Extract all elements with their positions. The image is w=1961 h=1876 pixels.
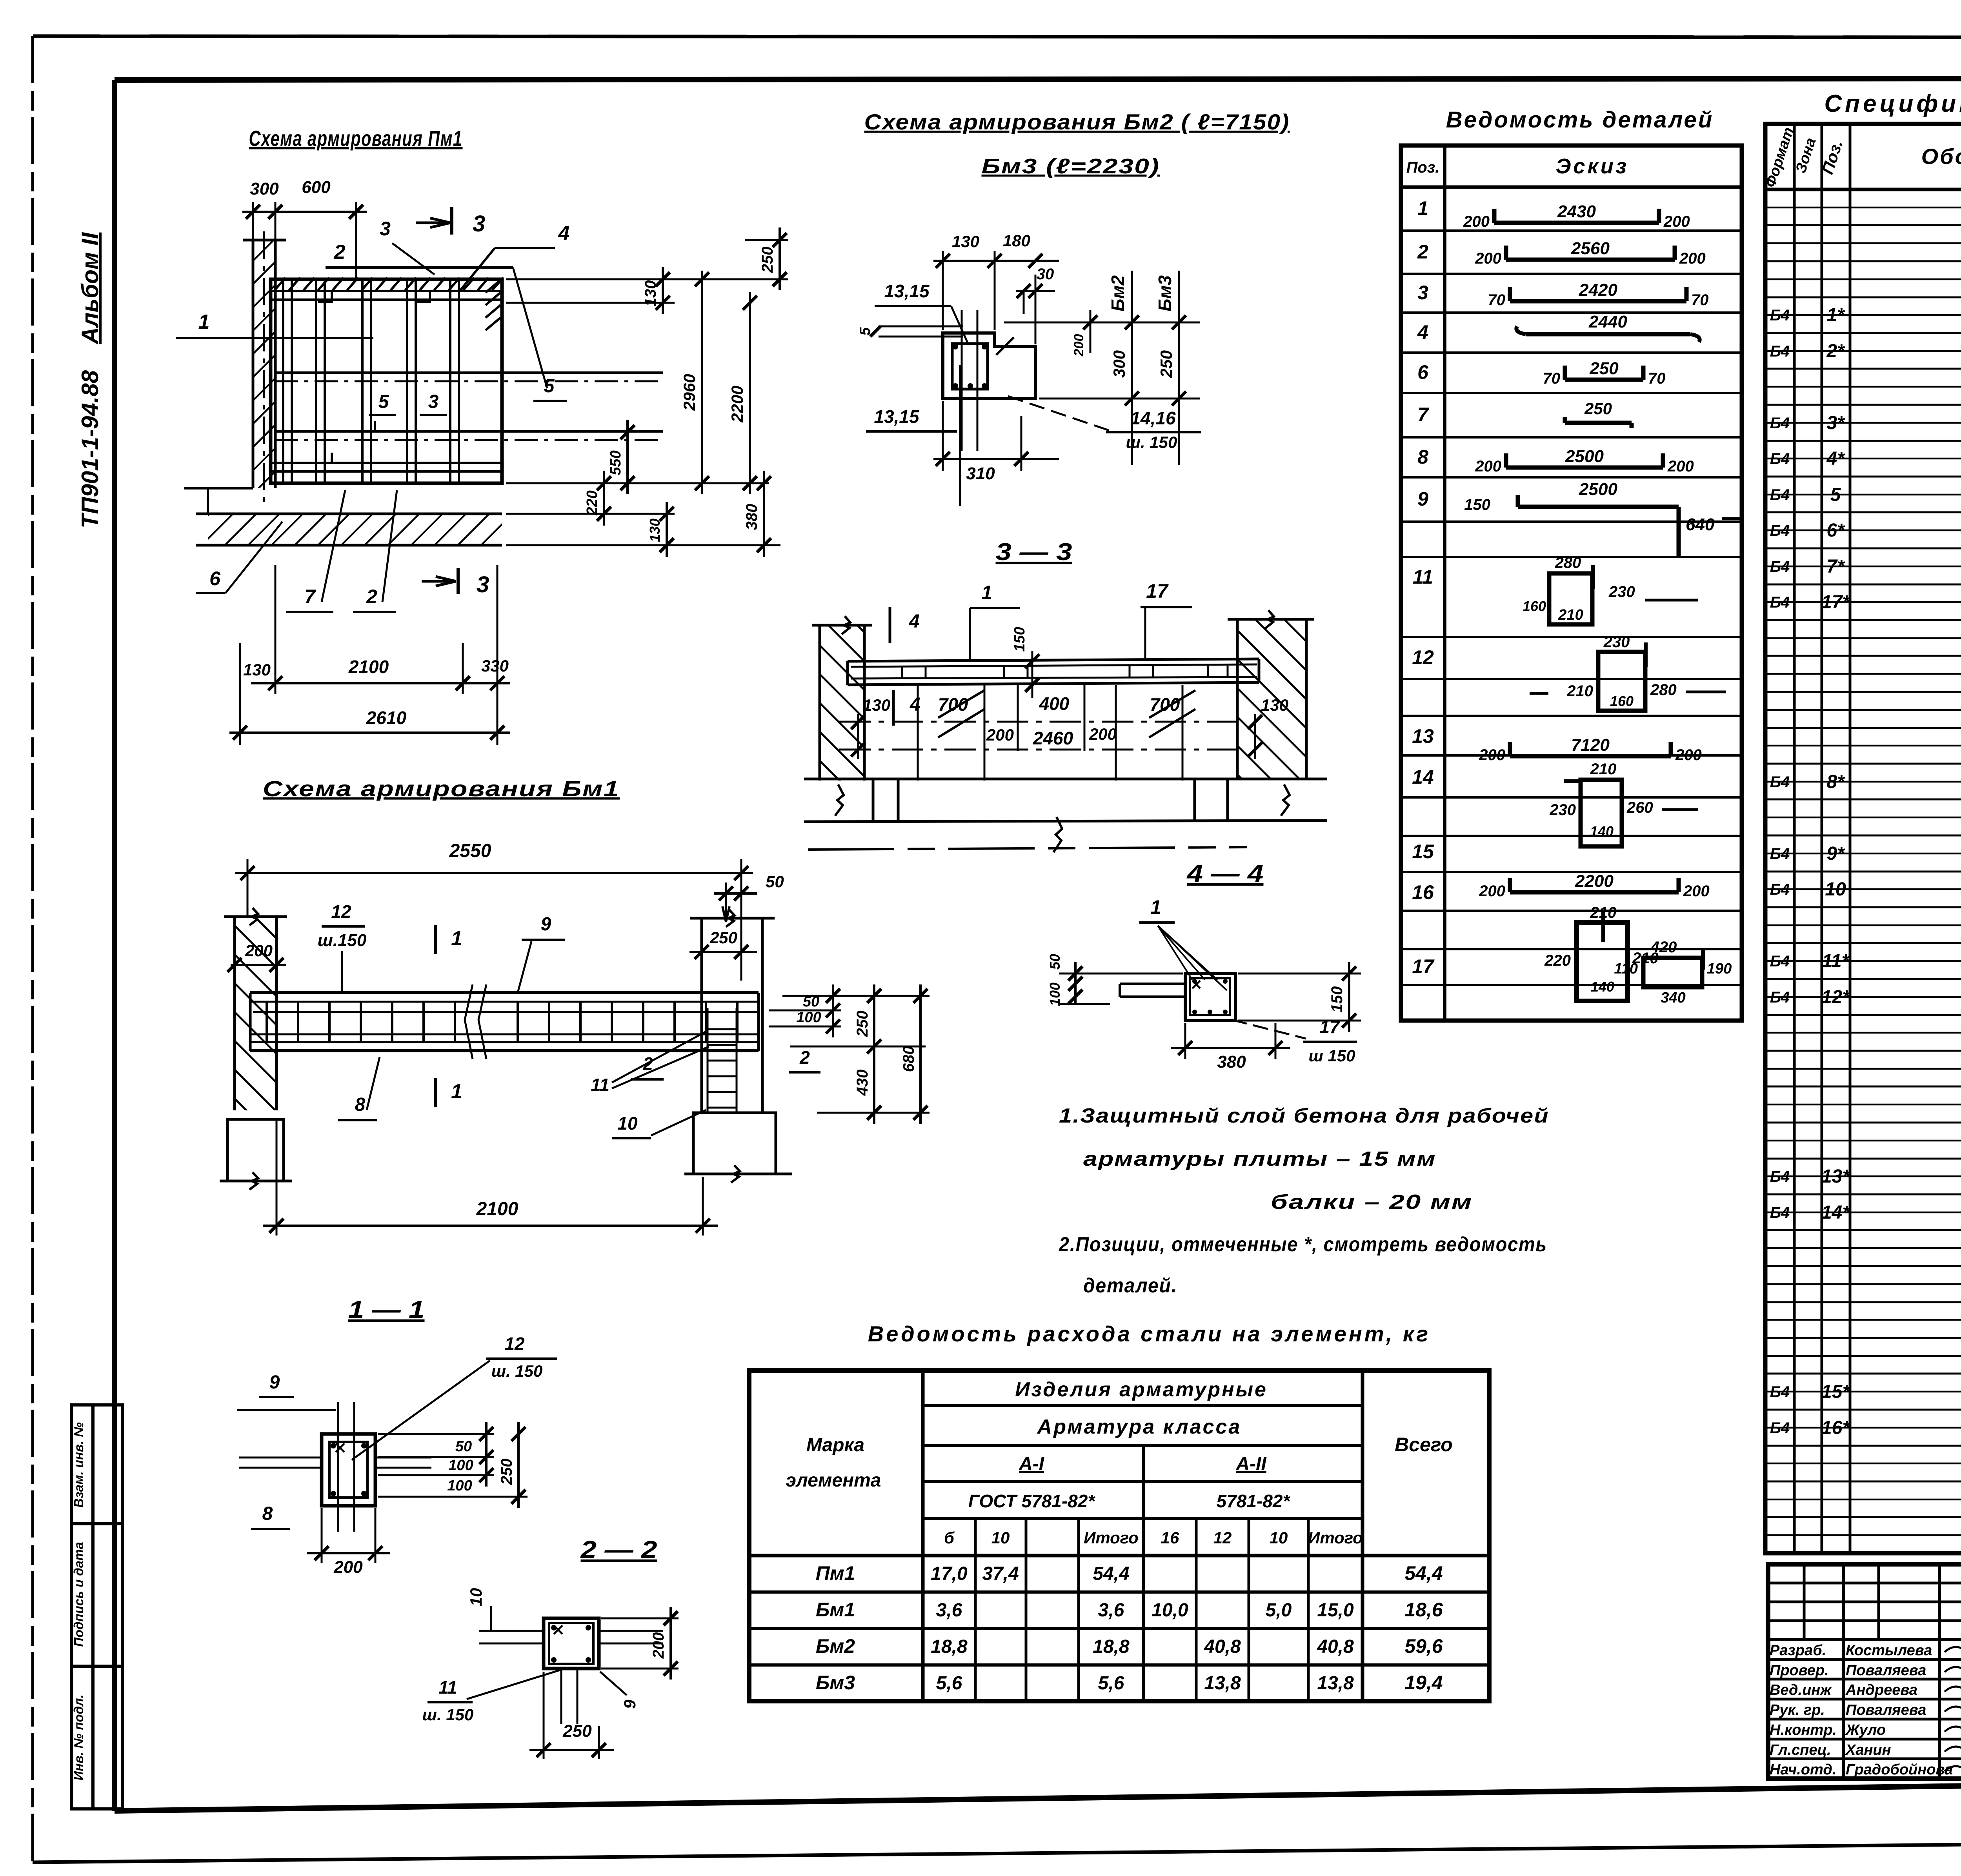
svg-text:380: 380: [743, 504, 760, 530]
1-1 bottom dim 200: [307, 1552, 390, 1554]
svg-text:10,0: 10,0: [1151, 1600, 1188, 1621]
svg-text:2500: 2500: [1565, 447, 1604, 466]
svg-text:380: 380: [1217, 1052, 1246, 1072]
svg-text:6: 6: [1417, 361, 1429, 383]
svg-text:250: 250: [854, 1011, 871, 1037]
svg-text:54,4: 54,4: [1404, 1562, 1443, 1584]
svg-text:250: 250: [1589, 359, 1619, 378]
svg-text:700: 700: [1150, 694, 1180, 715]
svg-text:Костылева: Костылева: [1846, 1642, 1932, 1659]
BM1 right column: [700, 918, 703, 1113]
svg-text:ш. 150: ш. 150: [1126, 433, 1177, 451]
PM1 rebar horizontals: [272, 290, 500, 292]
BM1 column ladder: [707, 1008, 709, 1112]
svg-text:12: 12: [1412, 646, 1434, 668]
4-4 left dims: [1059, 973, 1183, 975]
svg-text:5,0: 5,0: [1266, 1600, 1292, 1621]
BM1 dim 50 top right: [725, 883, 727, 920]
svg-text:11: 11: [1413, 566, 1433, 588]
svg-text:5: 5: [378, 391, 389, 412]
svg-text:70: 70: [1543, 370, 1561, 387]
svg-text:1: 1: [451, 927, 462, 950]
BM1 stirrups: [266, 1002, 268, 1042]
svg-text:100: 100: [796, 1009, 821, 1026]
svg-text:Схема армирования Бм1: Схема армирования Бм1: [263, 776, 620, 801]
BM23 bottom dim 310: [942, 401, 944, 471]
svg-text:200: 200: [650, 1632, 667, 1659]
svg-text:300: 300: [1110, 350, 1128, 378]
svg-text:9: 9: [620, 1699, 639, 1709]
4-4 right dim 150: [1238, 973, 1361, 975]
PM1 rebar verticals: [282, 281, 284, 482]
svg-text:10: 10: [1825, 879, 1846, 900]
svg-text:19,4: 19,4: [1404, 1672, 1443, 1694]
svg-text:2: 2: [799, 1047, 810, 1068]
svg-text:9: 9: [1417, 488, 1428, 510]
svg-text:200: 200: [986, 726, 1014, 744]
svg-text:200: 200: [1071, 334, 1086, 357]
BM23 hanging bars: [961, 310, 963, 451]
BM1 left foundation: [227, 1119, 284, 1181]
svg-text:1: 1: [981, 582, 992, 604]
svg-text:680: 680: [900, 1046, 917, 1072]
svg-text:4: 4: [558, 222, 570, 245]
svg-text:2: 2: [1417, 241, 1428, 263]
svg-text:Ведомость деталей: Ведомость деталей: [1446, 107, 1714, 133]
svg-text:250: 250: [709, 928, 737, 947]
svg-text:Б4: Б4: [1770, 989, 1790, 1006]
3-3 slab stirrup marks: [901, 666, 903, 678]
svg-text:Б4: Б4: [1770, 522, 1790, 539]
svg-text:70: 70: [1691, 291, 1709, 309]
svg-text:Марка: Марка: [806, 1435, 864, 1456]
svg-text:9: 9: [541, 914, 551, 935]
title block: [1768, 1564, 1961, 1779]
svg-text:8: 8: [355, 1094, 366, 1115]
svg-text:200: 200: [1675, 746, 1702, 764]
svg-text:180: 180: [1003, 231, 1030, 250]
BM23 right dim lines: [1004, 322, 1200, 324]
BM23 top dims: [942, 251, 944, 330]
eskiz sketches: [1494, 221, 1659, 225]
sheet outer border: [33, 36, 1961, 38]
PM1 section mark 3 top: [450, 207, 453, 235]
svg-text:13*: 13*: [1821, 1166, 1850, 1187]
svg-text:Бм2: Бм2: [816, 1635, 855, 1657]
svg-text:Градобойнова: Градобойнова: [1846, 1761, 1953, 1778]
4-4 bottom dim 380: [1184, 1023, 1186, 1059]
svg-text:6: 6: [209, 568, 221, 590]
svg-text:14,16: 14,16: [1130, 408, 1176, 428]
svg-text:200: 200: [1089, 725, 1117, 743]
svg-text:7*: 7*: [1826, 556, 1845, 577]
svg-text:10: 10: [1270, 1528, 1288, 1547]
svg-text:260: 260: [1626, 799, 1653, 816]
svg-text:2 — 2: 2 — 2: [580, 1536, 657, 1563]
svg-text:Б4: Б4: [1770, 881, 1790, 898]
left stamp boxes: [71, 1405, 122, 1809]
PM1 floor slab: [208, 514, 502, 545]
svg-text:2*: 2*: [1826, 341, 1845, 362]
svg-text:Всего: Всего: [1395, 1434, 1453, 1456]
BM1 bottom dim 2100: [276, 1118, 278, 1236]
svg-text:Жуло: Жуло: [1845, 1722, 1886, 1738]
svg-text:Б4: Б4: [1770, 486, 1790, 504]
svg-text:3,6: 3,6: [1098, 1600, 1124, 1621]
svg-text:150: 150: [1011, 627, 1028, 651]
svg-text:16*: 16*: [1821, 1417, 1850, 1438]
svg-text:Гл.спец.: Гл.спец.: [1770, 1742, 1831, 1758]
svg-text:210: 210: [1566, 682, 1593, 700]
svg-text:9: 9: [269, 1372, 280, 1393]
svg-text:200: 200: [1475, 250, 1501, 267]
svg-text:250: 250: [1584, 399, 1612, 418]
svg-text:160: 160: [1523, 598, 1546, 614]
svg-text:Б4: Б4: [1770, 307, 1790, 324]
svg-text:Схема армирования Пм1: Схема армирования Пм1: [249, 126, 463, 151]
svg-text:8: 8: [262, 1503, 273, 1524]
svg-text:Итого: Итого: [1084, 1528, 1139, 1547]
PM1 plate outline: [271, 279, 502, 483]
PM1 section mark 3 bottom: [457, 568, 460, 594]
svg-text:250: 250: [562, 1721, 592, 1741]
svg-text:200: 200: [1667, 458, 1694, 475]
svg-text:7: 7: [304, 586, 316, 608]
3-3 vertical grid: [917, 685, 919, 781]
svg-text:330: 330: [481, 657, 509, 675]
svg-text:Б4: Б4: [1770, 415, 1790, 432]
svg-text:Ханин: Ханин: [1845, 1742, 1891, 1758]
BM1 dim 250 column: [689, 951, 757, 953]
svg-text:2430: 2430: [1557, 202, 1596, 221]
svg-text:14*: 14*: [1821, 1202, 1850, 1223]
svg-text:140: 140: [1590, 823, 1614, 839]
svg-text:Арматура класса: Арматура класса: [1037, 1416, 1242, 1438]
svg-text:250: 250: [1157, 350, 1175, 378]
svg-text:3*: 3*: [1826, 413, 1845, 433]
svg-text:5781-82*: 5781-82*: [1217, 1491, 1291, 1511]
svg-text:2550: 2550: [449, 841, 491, 861]
svg-text:100: 100: [1047, 983, 1063, 1006]
PM1 plate top hatch strip: [275, 278, 286, 290]
svg-text:2560: 2560: [1571, 239, 1610, 258]
svg-text:2420: 2420: [1579, 280, 1617, 300]
svg-text:1: 1: [198, 311, 210, 333]
svg-text:Итого: Итого: [1308, 1528, 1363, 1547]
svg-text:Бм3: Бм3: [1155, 275, 1175, 311]
svg-text:Б4: Б4: [1770, 1383, 1790, 1401]
svg-text:130: 130: [952, 232, 979, 251]
svg-text:ш 150: ш 150: [1308, 1046, 1355, 1065]
svg-text:17*: 17*: [1821, 592, 1850, 613]
1-1 vertical bars: [337, 1402, 339, 1532]
svg-text:3,6: 3,6: [936, 1600, 962, 1621]
svg-text:15,0: 15,0: [1317, 1600, 1354, 1621]
svg-text:130: 130: [243, 661, 271, 679]
svg-text:2.Позиции, отмеченные *, смо: 2.Позиции, отмеченные *, смотреть ведомо…: [1059, 1233, 1547, 1256]
svg-text:ГОСТ 5781-82*: ГОСТ 5781-82*: [968, 1491, 1096, 1511]
PM1 left wall: [253, 240, 275, 488]
3-3 dim texts: [857, 714, 859, 759]
svg-text:250: 250: [759, 247, 776, 273]
svg-text:200: 200: [1683, 883, 1710, 900]
svg-text:3 — 3: 3 — 3: [996, 539, 1072, 566]
svg-text:4 — 4: 4 — 4: [1186, 860, 1263, 887]
svg-text:130: 130: [863, 696, 890, 714]
svg-text:200: 200: [333, 1558, 363, 1577]
4-4 outline: [1185, 973, 1235, 1021]
svg-text:А-II: А-II: [1235, 1454, 1267, 1474]
svg-text:200: 200: [1463, 213, 1490, 230]
svg-text:18,8: 18,8: [931, 1636, 968, 1657]
svg-text:Ведомость расхода стали на: Ведомость расхода стали на элемент, кг: [868, 1321, 1430, 1346]
svg-text:Б4: Б4: [1770, 953, 1790, 970]
svg-text:2100: 2100: [476, 1199, 518, 1219]
svg-text:Подпись и дата: Подпись и дата: [71, 1542, 86, 1647]
svg-text:700: 700: [938, 694, 968, 715]
svg-text:12: 12: [1213, 1528, 1232, 1547]
svg-text:200: 200: [1663, 213, 1690, 230]
PM1 bottom dims: [239, 643, 241, 745]
svg-text:210: 210: [1590, 761, 1617, 778]
svg-text:13,8: 13,8: [1317, 1673, 1354, 1694]
svg-text:40,8: 40,8: [1317, 1636, 1354, 1657]
svg-text:Провер.: Провер.: [1770, 1662, 1829, 1679]
svg-text:Б4: Б4: [1770, 450, 1790, 468]
PM1 dim top 300/600: [252, 202, 254, 240]
svg-text:3: 3: [380, 218, 391, 240]
BM1 dim 200 wall: [231, 964, 286, 966]
svg-text:2500: 2500: [1579, 480, 1617, 499]
svg-text:3: 3: [473, 211, 485, 237]
svg-text:Андреева: Андреева: [1845, 1682, 1917, 1698]
svg-text:14: 14: [1412, 766, 1434, 788]
svg-text:3: 3: [1417, 282, 1428, 304]
svg-text:200: 200: [245, 941, 273, 960]
svg-text:110: 110: [1614, 961, 1638, 977]
PM1 right dims: [506, 278, 788, 280]
svg-text:2: 2: [642, 1054, 653, 1074]
1-1 horizontal bars: [239, 1457, 322, 1459]
svg-text:Б4: Б4: [1770, 773, 1790, 791]
svg-text:Б4: Б4: [1770, 558, 1790, 575]
4-4 label 17: [1232, 1020, 1306, 1039]
svg-text:3: 3: [428, 391, 439, 412]
PM1 small bent hooks: [318, 292, 332, 302]
svg-text:3: 3: [477, 572, 489, 597]
svg-text:ш. 150: ш. 150: [422, 1705, 474, 1724]
svg-text:Изделия арматурные: Изделия арматурные: [1015, 1378, 1268, 1401]
svg-text:50: 50: [455, 1438, 472, 1455]
svg-text:5,6: 5,6: [1098, 1673, 1124, 1694]
PM1 bottom bars: [272, 462, 500, 464]
svg-text:17: 17: [1412, 955, 1435, 977]
svg-text:230: 230: [1549, 801, 1576, 819]
3-3 bent bar glyphs: [938, 690, 984, 737]
svg-text:10: 10: [991, 1528, 1010, 1547]
svg-text:15*: 15*: [1821, 1381, 1850, 1402]
svg-text:11: 11: [591, 1075, 609, 1095]
svg-text:2440: 2440: [1588, 312, 1627, 331]
BM1 right dim stack: [782, 995, 930, 997]
svg-text:балки – 20 мм: балки – 20 мм: [1271, 1191, 1473, 1214]
svg-text:200: 200: [1679, 250, 1706, 267]
svg-text:8*: 8*: [1826, 772, 1845, 792]
svg-text:Инв. № подл.: Инв. № подл.: [71, 1694, 86, 1780]
svg-text:2610: 2610: [366, 708, 407, 728]
svg-text:16: 16: [1161, 1528, 1179, 1547]
svg-text:70: 70: [1648, 370, 1666, 387]
svg-text:40,8: 40,8: [1204, 1636, 1241, 1657]
svg-text:59,6: 59,6: [1404, 1635, 1443, 1657]
svg-text:Разраб.: Разраб.: [1770, 1642, 1826, 1659]
2-2 rects: [544, 1618, 599, 1669]
svg-text:50: 50: [1047, 954, 1063, 970]
svg-text:Пм1: Пм1: [816, 1562, 855, 1584]
1-1 right dims: [378, 1433, 494, 1435]
svg-text:б: б: [944, 1528, 955, 1547]
svg-text:4: 4: [910, 694, 920, 715]
BM1 left wall: [235, 917, 277, 1110]
svg-text:Рук. гр.: Рук. гр.: [1770, 1702, 1825, 1718]
svg-text:Взам. инв. №: Взам. инв. №: [71, 1422, 86, 1508]
svg-text:Н.контр.: Н.контр.: [1770, 1722, 1837, 1738]
svg-text:280: 280: [1555, 554, 1581, 571]
BM23 leader 14,16: [1008, 396, 1110, 431]
svg-text:Эскиз: Эскиз: [1556, 155, 1629, 178]
svg-text:130: 130: [642, 280, 659, 307]
svg-text:15: 15: [1412, 841, 1434, 862]
BM23 dim 5 left: [879, 326, 963, 328]
3-3 right wall: [1237, 619, 1306, 779]
svg-text:2200: 2200: [728, 386, 746, 422]
svg-text:220: 220: [1544, 952, 1571, 969]
BM1 section marks 1: [434, 925, 437, 954]
svg-text:Спецификация к схемам армир: Спецификация к схемам армирования: [1824, 90, 1961, 117]
svg-text:Бм2: Бм2: [1108, 275, 1128, 311]
svg-text:1 — 1: 1 — 1: [348, 1296, 425, 1323]
svg-text:2460: 2460: [1033, 728, 1073, 748]
svg-text:4: 4: [909, 611, 920, 632]
svg-text:арматуры плиты – 15: арматуры плиты – 15 мм: [1083, 1148, 1436, 1170]
svg-text:деталей.: деталей.: [1083, 1274, 1177, 1297]
svg-text:430: 430: [854, 1070, 871, 1096]
1-1 section rects: [322, 1434, 375, 1506]
svg-text:1*: 1*: [1826, 305, 1845, 326]
svg-text:160: 160: [1610, 693, 1634, 709]
svg-text:Нач.отд.: Нач.отд.: [1770, 1761, 1836, 1778]
svg-text:1.Защитный слой бетона: 1.Защитный слой бетона для рабочей: [1059, 1104, 1549, 1127]
svg-text:100: 100: [448, 1457, 473, 1474]
PM1 right edge hatch: [486, 280, 500, 293]
svg-text:2200: 2200: [1575, 872, 1614, 891]
svg-text:340: 340: [1661, 990, 1685, 1006]
svg-text:Поваляева: Поваляева: [1846, 1702, 1926, 1718]
svg-text:18,8: 18,8: [1093, 1636, 1130, 1657]
svg-text:7: 7: [1417, 404, 1429, 426]
svg-text:Схема армирования Бм2 ( ℓ=7150: Схема армирования Бм2 ( ℓ=7150): [864, 109, 1290, 134]
BM1 beam break marks: [465, 984, 486, 1059]
svg-text:11*: 11*: [1822, 951, 1850, 972]
svg-text:230: 230: [1608, 583, 1635, 600]
svg-text:13,15: 13,15: [884, 281, 930, 301]
svg-text:12: 12: [331, 901, 351, 922]
svg-text:130: 130: [647, 519, 663, 542]
svg-text:17,0: 17,0: [931, 1563, 968, 1584]
svg-text:400: 400: [1039, 693, 1070, 714]
svg-text:5: 5: [544, 376, 555, 397]
svg-text:Поз.: Поз.: [1406, 159, 1440, 176]
svg-text:Обозначение: Обозначение: [1921, 144, 1961, 169]
svg-text:190: 190: [1707, 961, 1732, 977]
svg-text:5,6: 5,6: [936, 1673, 962, 1694]
svg-text:230: 230: [1603, 633, 1630, 651]
2-2 bars: [479, 1630, 544, 1632]
svg-text:ш.150: ш.150: [318, 931, 367, 950]
svg-text:17: 17: [1146, 580, 1169, 602]
svg-text:5: 5: [1830, 484, 1841, 505]
BM1 dim 2550: [247, 859, 249, 918]
svg-text:ТП901-1-94.88 Альбом II: ТП901-1-94.88 Альбом II: [77, 232, 103, 528]
BM1 beam: [250, 991, 759, 994]
svg-text:220: 220: [584, 490, 600, 515]
svg-text:50: 50: [766, 872, 784, 891]
svg-text:Б4: Б4: [1770, 1419, 1790, 1437]
svg-text:70: 70: [1488, 291, 1506, 309]
svg-text:150: 150: [1464, 496, 1490, 513]
svg-text:2960: 2960: [680, 374, 699, 411]
BM23 section outline: [943, 333, 1035, 398]
svg-text:Б4: Б4: [1770, 845, 1790, 862]
svg-text:640: 640: [1686, 515, 1715, 534]
svg-text:элемента: элемента: [786, 1470, 881, 1491]
svg-text:Бм1: Бм1: [816, 1599, 855, 1621]
svg-text:13: 13: [1412, 725, 1434, 747]
svg-text:140: 140: [1591, 979, 1614, 995]
svg-text:300: 300: [250, 179, 279, 198]
svg-text:17: 17: [1319, 1017, 1341, 1037]
svg-text:Б4: Б4: [1770, 1168, 1790, 1185]
svg-text:12: 12: [504, 1334, 525, 1354]
svg-text:8: 8: [1417, 446, 1428, 468]
svg-text:10: 10: [617, 1113, 638, 1134]
svg-text:600: 600: [302, 178, 331, 197]
svg-text:4*: 4*: [1826, 448, 1845, 469]
svg-text:2: 2: [366, 586, 377, 608]
svg-text:7120: 7120: [1571, 735, 1610, 755]
svg-text:6*: 6*: [1826, 520, 1845, 541]
PM1 long bars 5: [275, 371, 663, 374]
svg-text:200: 200: [1479, 883, 1505, 900]
svg-text:Б4: Б4: [1770, 343, 1790, 360]
svg-text:1: 1: [1150, 896, 1161, 918]
svg-text:4: 4: [1417, 321, 1428, 343]
svg-text:Поваляева: Поваляева: [1846, 1662, 1926, 1679]
svg-text:12*: 12*: [1821, 987, 1850, 1008]
svg-text:Вед.инж: Вед.инж: [1770, 1682, 1832, 1698]
svg-text:18,6: 18,6: [1404, 1599, 1443, 1621]
svg-text:13,8: 13,8: [1204, 1673, 1241, 1694]
svg-text:2: 2: [334, 241, 346, 264]
svg-text:16: 16: [1412, 881, 1434, 903]
svg-text:50: 50: [803, 993, 819, 1010]
svg-text:Б4: Б4: [1770, 594, 1790, 611]
main frame: [115, 78, 1961, 80]
svg-text:2100: 2100: [348, 657, 389, 677]
svg-text:100: 100: [447, 1478, 472, 1494]
svg-text:54,4: 54,4: [1093, 1563, 1129, 1584]
3-3 slab: [848, 659, 1259, 661]
